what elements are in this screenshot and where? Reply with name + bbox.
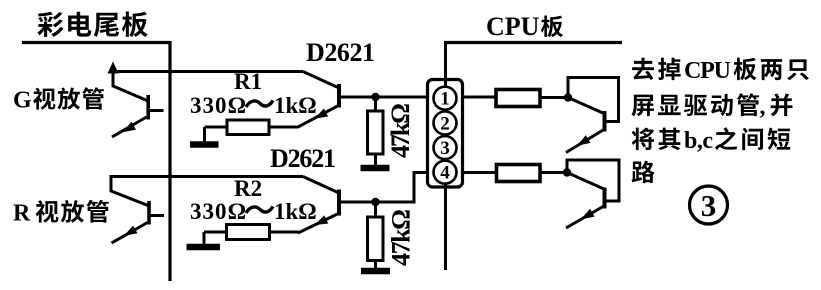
resistor R1 [205,120,299,135]
label CPU板 (CPU board) [486,12,563,41]
transistor QG (G video amp) [108,62,164,138]
svg-text:1kΩ: 1kΩ [274,199,317,224]
svg-text:D2621: D2621 [270,144,336,173]
resistor R2 [204,225,299,240]
svg-text:CPU: CPU [486,12,540,41]
transistor Q4 (OSD driver, b-c shorted) [566,160,619,228]
svg-text:330Ω: 330Ω [190,199,246,224]
wire R5 to Q3 [540,96,568,99]
wire G collector bus [111,70,303,73]
svg-text:b,c: b,c [684,128,713,154]
ground at R2 [187,232,221,247]
CPU board edge wire [444,41,447,270]
node Q1 base junction [371,93,379,101]
note line 1 去掉CPU板两只 [632,58,809,84]
svg-text:G: G [13,88,32,114]
node Q2 base junction [371,198,379,206]
note line 2 屏显驱动管,并 [632,93,793,120]
svg-text:R1: R1 [234,69,262,94]
pin 1 [434,87,457,110]
label 彩电尾板 (color TV tail board) [37,12,147,38]
connector XS (board-to-board) [428,80,463,188]
wire pin4 to R6 [463,171,497,174]
svg-text:1: 1 [440,89,450,110]
note line 3 将其b,c之间短 [632,127,791,154]
CPU edge wire inside connector [444,80,447,188]
svg-text:1kΩ: 1kΩ [274,93,317,118]
label G视放管 (G video output transistor) [13,87,104,113]
ground at R4 [361,268,390,275]
label 330Ω~1kΩ (R1 value) [190,93,317,118]
svg-text:3: 3 [440,138,450,159]
figure number ③ [690,186,728,224]
svg-text:2: 2 [440,114,450,135]
wire Q1 base to pin 1 [339,96,427,99]
wire R6 to Q4 [540,171,567,174]
transistor Q1 D2621 [298,72,339,128]
node Q3 base-collector [564,93,572,101]
transistor QR (R video amp) [111,175,164,243]
note line 4 路 [632,161,655,183]
transistor Q2 D2621 [298,177,339,234]
svg-text:330Ω: 330Ω [190,93,246,118]
label R视放管 (R video output transistor) [13,200,109,227]
svg-text:R2: R2 [234,176,262,201]
CPU board underline [444,41,622,44]
resistor R3 47kΩ [368,97,384,165]
svg-text:47kΩ: 47kΩ [387,209,416,266]
pin 4 [434,161,457,184]
svg-text:4: 4 [440,163,450,184]
svg-text:3: 3 [701,188,717,223]
transistor Q3 (OSD driver, b-c shorted) [566,78,619,153]
resistor R4 47kΩ [368,202,384,268]
resistor R5 [496,90,540,107]
pin 2 [434,112,457,135]
svg-text:R: R [13,201,31,227]
tail board underline [22,41,170,44]
svg-text:D2621: D2621 [306,38,375,67]
svg-text:47kΩ: 47kΩ [386,103,415,158]
wire Q2 base to pin 4 [339,173,427,203]
svg-text:CPU: CPU [684,58,731,84]
node Q4 base-collector [563,168,571,176]
ground at R1 [190,127,219,145]
pin 3 [434,136,457,159]
wire pin1 to R5 [463,96,496,99]
tail board edge wire [168,41,171,281]
svg-text:,: , [760,94,766,120]
ground at R3 [361,165,390,172]
wire R collector bus [111,175,303,178]
resistor R6 [497,165,541,182]
label 330Ω~1kΩ (R2 value) [190,199,317,224]
